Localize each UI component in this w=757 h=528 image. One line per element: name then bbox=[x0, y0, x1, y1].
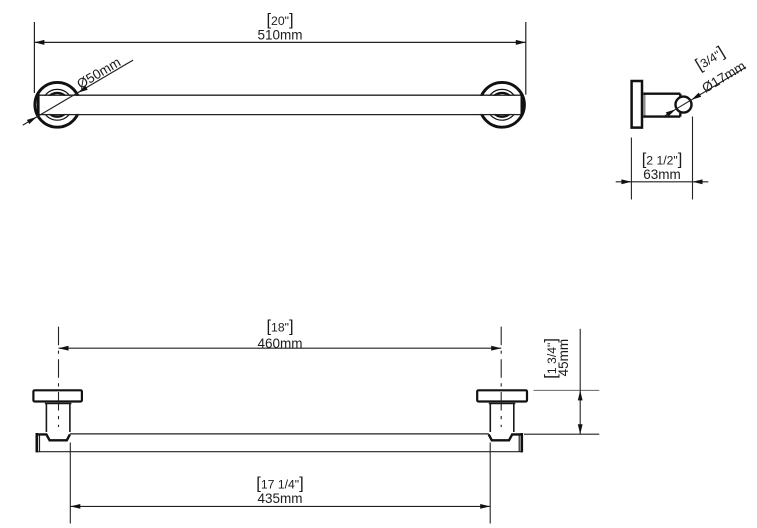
svg-text:[2 1/2"]: [2 1/2"] bbox=[642, 151, 683, 169]
svg-text:510mm: 510mm bbox=[257, 27, 302, 42]
svg-text:63mm: 63mm bbox=[643, 167, 681, 182]
svg-text:435mm: 435mm bbox=[257, 491, 302, 506]
svg-text:45mm: 45mm bbox=[556, 339, 571, 377]
svg-text:[18"]: [18"] bbox=[266, 318, 293, 336]
svg-text:460mm: 460mm bbox=[257, 336, 302, 351]
svg-text:[20"]: [20"] bbox=[266, 11, 293, 29]
